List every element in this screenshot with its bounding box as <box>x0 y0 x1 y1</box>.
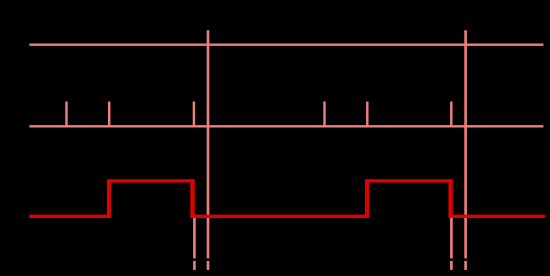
cursor line V2 end dash <box>464 261 467 270</box>
cursor line V1 end dash <box>207 261 210 270</box>
output pulse 2 falling edge <box>448 179 452 218</box>
output pulse waveform <box>29 181 545 216</box>
short cursor line C1 solid part <box>193 215 196 259</box>
input pulse tick 6 <box>450 102 452 128</box>
short cursor line C2 end dash <box>450 261 453 270</box>
input pulse tick 2 <box>108 102 110 128</box>
cursor line V2 solid part <box>464 30 467 258</box>
input pulse tick 1 <box>65 102 67 128</box>
output pulse 2 rising edge <box>365 179 369 218</box>
short cursor line C1 end dash <box>193 261 196 270</box>
output pulse 1 falling edge <box>190 179 194 218</box>
output pulse 1 rising edge <box>107 179 111 218</box>
input pulse tick 3 <box>193 102 195 128</box>
middle signal baseline <box>29 125 543 127</box>
short cursor line C2 solid part <box>450 215 453 259</box>
input pulse tick 4 <box>323 102 325 128</box>
upper signal high-level line <box>29 44 543 46</box>
cursor line V1 solid part <box>207 30 210 258</box>
input pulse tick 5 <box>366 102 368 128</box>
